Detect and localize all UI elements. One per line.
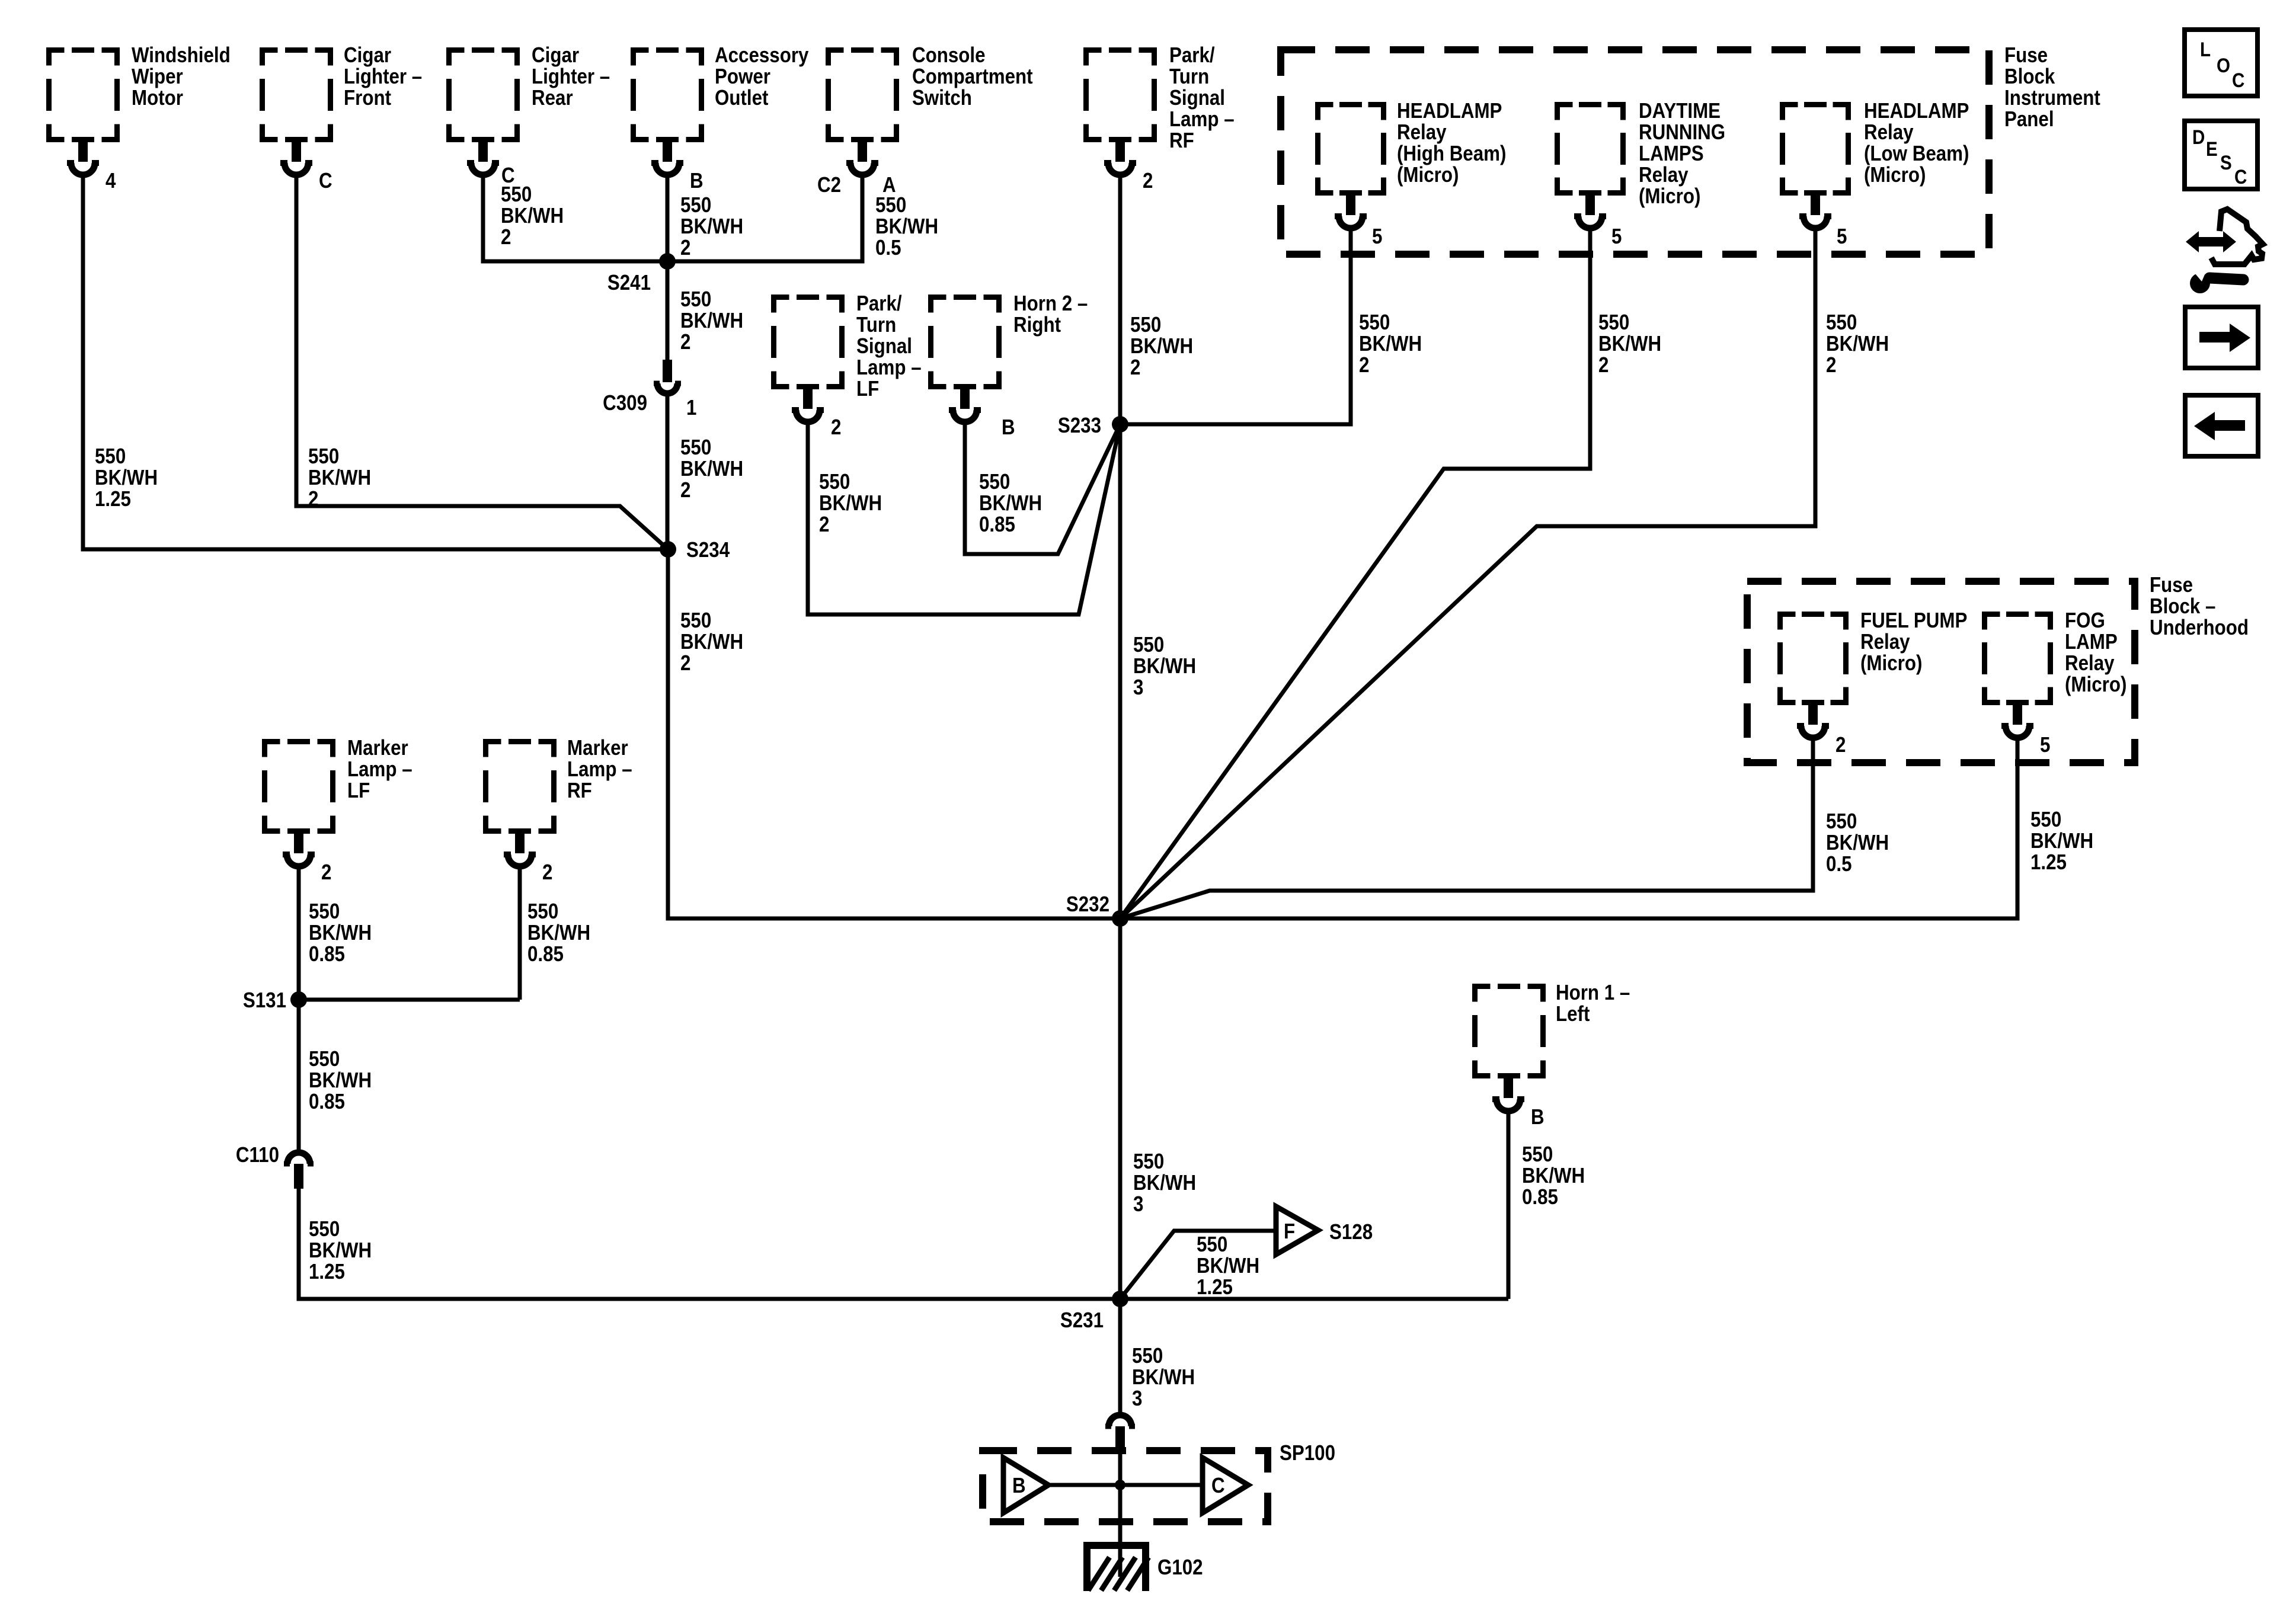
svg-text:2: 2 bbox=[1130, 356, 1140, 380]
svg-text:Block –: Block – bbox=[2150, 594, 2215, 619]
svg-text:2: 2 bbox=[1826, 353, 1836, 377]
svg-text:BK/WH: BK/WH bbox=[680, 630, 743, 654]
svg-text:BK/WH: BK/WH bbox=[680, 309, 743, 333]
svg-text:2: 2 bbox=[308, 487, 318, 511]
svg-text:S131: S131 bbox=[243, 988, 286, 1013]
svg-text:550: 550 bbox=[1133, 1150, 1164, 1174]
svg-text:0.85: 0.85 bbox=[979, 513, 1015, 537]
svg-text:C309: C309 bbox=[603, 391, 647, 415]
svg-text:550: 550 bbox=[501, 183, 532, 207]
svg-text:0.5: 0.5 bbox=[875, 236, 901, 260]
svg-text:HEADLAMP: HEADLAMP bbox=[1864, 99, 1969, 123]
svg-text:B: B bbox=[1012, 1474, 1026, 1498]
svg-text:2: 2 bbox=[680, 651, 690, 676]
svg-text:2: 2 bbox=[1835, 733, 1846, 757]
svg-text:BK/WH: BK/WH bbox=[2030, 829, 2093, 853]
svg-text:3: 3 bbox=[1132, 1387, 1142, 1411]
svg-text:0.85: 0.85 bbox=[309, 942, 345, 966]
svg-text:2: 2 bbox=[831, 415, 841, 440]
svg-text:550: 550 bbox=[1197, 1233, 1227, 1257]
svg-text:BK/WH: BK/WH bbox=[680, 457, 743, 481]
svg-text:S233: S233 bbox=[1058, 414, 1101, 438]
svg-text:C: C bbox=[319, 169, 332, 193]
svg-text:2: 2 bbox=[1143, 169, 1153, 193]
svg-text:Signal: Signal bbox=[1169, 86, 1225, 110]
svg-text:Marker: Marker bbox=[567, 736, 628, 760]
svg-text:2: 2 bbox=[1598, 353, 1609, 377]
svg-text:Wiper: Wiper bbox=[132, 65, 183, 89]
svg-text:Cigar: Cigar bbox=[532, 43, 579, 68]
svg-text:B: B bbox=[690, 169, 703, 193]
svg-text:Relay: Relay bbox=[2065, 651, 2115, 676]
svg-text:F: F bbox=[1284, 1219, 1295, 1244]
svg-text:Cigar: Cigar bbox=[344, 43, 391, 68]
svg-text:S232: S232 bbox=[1066, 892, 1109, 917]
svg-text:BK/WH: BK/WH bbox=[1133, 654, 1196, 678]
svg-text:3: 3 bbox=[1133, 676, 1143, 700]
svg-text:Turn: Turn bbox=[856, 313, 896, 337]
svg-text:Fuse: Fuse bbox=[2004, 43, 2048, 68]
svg-text:(Micro): (Micro) bbox=[1860, 651, 1922, 676]
svg-text:RF: RF bbox=[567, 779, 592, 803]
svg-text:Accessory: Accessory bbox=[715, 43, 809, 68]
svg-text:550: 550 bbox=[309, 1217, 340, 1241]
svg-text:(Low Beam): (Low Beam) bbox=[1864, 142, 1969, 166]
svg-text:BK/WH: BK/WH bbox=[1522, 1164, 1585, 1188]
svg-text:(Micro): (Micro) bbox=[1639, 184, 1700, 209]
svg-text:LAMPS: LAMPS bbox=[1639, 142, 1704, 166]
svg-text:550: 550 bbox=[1826, 809, 1857, 834]
svg-text:(Micro): (Micro) bbox=[1864, 163, 1926, 187]
svg-text:S234: S234 bbox=[686, 538, 730, 562]
svg-text:550: 550 bbox=[1598, 311, 1629, 335]
svg-text:BK/WH: BK/WH bbox=[680, 215, 743, 239]
svg-text:550: 550 bbox=[1130, 313, 1161, 337]
svg-text:2: 2 bbox=[819, 513, 829, 537]
svg-text:Lamp –: Lamp – bbox=[347, 757, 412, 782]
svg-text:Horn 2 –: Horn 2 – bbox=[1013, 292, 1088, 316]
svg-text:Windshield: Windshield bbox=[132, 43, 231, 68]
svg-text:(High Beam): (High Beam) bbox=[1397, 142, 1506, 166]
svg-text:C2: C2 bbox=[817, 173, 841, 197]
svg-text:BK/WH: BK/WH bbox=[527, 921, 590, 945]
svg-text:5: 5 bbox=[2040, 733, 2050, 757]
svg-text:550: 550 bbox=[819, 470, 850, 494]
svg-text:550: 550 bbox=[875, 193, 906, 217]
svg-text:BK/WH: BK/WH bbox=[1359, 332, 1422, 356]
svg-text:BK/WH: BK/WH bbox=[1130, 334, 1193, 359]
svg-text:Park/: Park/ bbox=[856, 292, 902, 316]
svg-text:2: 2 bbox=[1359, 353, 1369, 377]
svg-text:BK/WH: BK/WH bbox=[309, 1238, 372, 1263]
svg-text:Horn 1 –: Horn 1 – bbox=[1556, 981, 1630, 1005]
svg-text:1.25: 1.25 bbox=[309, 1260, 345, 1284]
svg-text:BK/WH: BK/WH bbox=[1132, 1365, 1195, 1390]
svg-text:LAMP: LAMP bbox=[2065, 630, 2118, 654]
svg-text:BK/WH: BK/WH bbox=[1598, 332, 1661, 356]
svg-text:Console: Console bbox=[912, 43, 986, 68]
svg-text:E: E bbox=[2206, 137, 2218, 160]
svg-text:Power: Power bbox=[715, 65, 770, 89]
svg-text:BK/WH: BK/WH bbox=[875, 215, 938, 239]
svg-text:5: 5 bbox=[1611, 225, 1622, 249]
svg-text:550: 550 bbox=[1132, 1344, 1163, 1368]
svg-text:2: 2 bbox=[680, 236, 690, 260]
svg-text:550: 550 bbox=[680, 287, 711, 312]
svg-text:2: 2 bbox=[501, 225, 511, 249]
svg-text:Fuse: Fuse bbox=[2150, 573, 2193, 597]
svg-text:FOG: FOG bbox=[2065, 609, 2105, 633]
svg-text:Panel: Panel bbox=[2004, 107, 2054, 132]
svg-text:B: B bbox=[1002, 415, 1015, 440]
svg-text:Park/: Park/ bbox=[1169, 43, 1215, 68]
svg-text:Right: Right bbox=[1013, 313, 1061, 337]
svg-text:550: 550 bbox=[1359, 311, 1390, 335]
svg-text:S: S bbox=[2220, 151, 2232, 174]
svg-text:RF: RF bbox=[1169, 129, 1194, 153]
svg-text:550: 550 bbox=[979, 470, 1010, 494]
svg-text:1.25: 1.25 bbox=[2030, 850, 2067, 875]
svg-text:550: 550 bbox=[680, 193, 711, 217]
svg-text:HEADLAMP: HEADLAMP bbox=[1397, 99, 1502, 123]
svg-text:550: 550 bbox=[1826, 311, 1857, 335]
svg-text:0.85: 0.85 bbox=[1522, 1185, 1558, 1209]
svg-text:2: 2 bbox=[680, 330, 690, 354]
svg-text:Underhood: Underhood bbox=[2150, 616, 2249, 640]
svg-text:2: 2 bbox=[680, 478, 690, 502]
svg-text:Relay: Relay bbox=[1860, 630, 1910, 654]
svg-text:5: 5 bbox=[1372, 225, 1382, 249]
svg-text:LF: LF bbox=[347, 779, 370, 803]
svg-text:BK/WH: BK/WH bbox=[95, 466, 158, 490]
svg-text:Front: Front bbox=[344, 86, 391, 110]
svg-text:B: B bbox=[1531, 1105, 1544, 1129]
svg-text:L: L bbox=[2200, 38, 2211, 60]
svg-text:Switch: Switch bbox=[912, 86, 972, 110]
svg-text:(Micro): (Micro) bbox=[2065, 673, 2126, 697]
svg-text:Lighter –: Lighter – bbox=[532, 65, 610, 89]
svg-text:BK/WH: BK/WH bbox=[1826, 831, 1889, 855]
svg-text:Compartment: Compartment bbox=[912, 65, 1033, 89]
svg-text:Lamp –: Lamp – bbox=[567, 757, 632, 782]
svg-text:Instrument: Instrument bbox=[2004, 86, 2100, 110]
svg-text:Relay: Relay bbox=[1639, 163, 1689, 187]
svg-text:550: 550 bbox=[308, 444, 339, 469]
svg-text:C: C bbox=[2234, 165, 2247, 188]
svg-text:550: 550 bbox=[309, 1047, 340, 1071]
svg-text:LF: LF bbox=[856, 377, 879, 401]
svg-text:Relay: Relay bbox=[1864, 120, 1914, 145]
svg-text:0.5: 0.5 bbox=[1826, 852, 1852, 876]
svg-text:Lamp –: Lamp – bbox=[1169, 107, 1235, 132]
svg-text:2: 2 bbox=[321, 860, 331, 885]
svg-text:FUEL PUMP: FUEL PUMP bbox=[1860, 609, 1967, 633]
svg-text:C110: C110 bbox=[236, 1143, 279, 1167]
svg-text:SP100: SP100 bbox=[1280, 1441, 1335, 1465]
svg-text:Rear: Rear bbox=[532, 86, 573, 110]
svg-text:D: D bbox=[2192, 126, 2205, 148]
svg-text:BK/WH: BK/WH bbox=[979, 491, 1042, 516]
svg-text:BK/WH: BK/WH bbox=[1197, 1254, 1259, 1278]
svg-text:550: 550 bbox=[2030, 808, 2061, 832]
svg-text:Relay: Relay bbox=[1397, 120, 1447, 145]
svg-text:3: 3 bbox=[1133, 1192, 1143, 1217]
svg-text:0.85: 0.85 bbox=[309, 1090, 345, 1114]
svg-text:550: 550 bbox=[1522, 1142, 1553, 1167]
svg-text:S241: S241 bbox=[607, 271, 651, 295]
svg-text:550: 550 bbox=[309, 900, 340, 924]
svg-text:S231: S231 bbox=[1060, 1308, 1104, 1333]
svg-text:0.85: 0.85 bbox=[527, 942, 564, 966]
svg-text:Block: Block bbox=[2004, 65, 2055, 89]
svg-text:Turn: Turn bbox=[1169, 65, 1209, 89]
svg-text:BK/WH: BK/WH bbox=[309, 921, 372, 945]
svg-text:Lamp –: Lamp – bbox=[856, 356, 922, 380]
svg-text:C: C bbox=[1211, 1474, 1225, 1498]
svg-text:BK/WH: BK/WH bbox=[1826, 332, 1889, 356]
svg-text:BK/WH: BK/WH bbox=[501, 204, 564, 228]
svg-text:Motor: Motor bbox=[132, 86, 183, 110]
svg-text:550: 550 bbox=[1133, 633, 1164, 657]
svg-text:4: 4 bbox=[105, 169, 116, 193]
svg-text:Outlet: Outlet bbox=[715, 86, 768, 110]
svg-text:2: 2 bbox=[542, 860, 552, 885]
svg-text:1.25: 1.25 bbox=[1197, 1275, 1233, 1299]
svg-text:RUNNING: RUNNING bbox=[1639, 120, 1725, 145]
svg-text:Signal: Signal bbox=[856, 334, 912, 359]
svg-text:550: 550 bbox=[527, 900, 558, 924]
svg-text:5: 5 bbox=[1837, 225, 1847, 249]
svg-text:DAYTIME: DAYTIME bbox=[1639, 99, 1721, 123]
svg-text:Left: Left bbox=[1556, 1002, 1590, 1026]
svg-text:BK/WH: BK/WH bbox=[308, 466, 371, 490]
svg-text:Lighter –: Lighter – bbox=[344, 65, 422, 89]
svg-text:1.25: 1.25 bbox=[95, 487, 131, 511]
svg-text:S128: S128 bbox=[1329, 1220, 1373, 1244]
svg-text:G102: G102 bbox=[1157, 1555, 1203, 1580]
svg-text:BK/WH: BK/WH bbox=[309, 1068, 372, 1093]
svg-text:O: O bbox=[2217, 54, 2230, 76]
svg-text:BK/WH: BK/WH bbox=[819, 491, 882, 516]
svg-text:550: 550 bbox=[680, 436, 711, 460]
svg-text:Marker: Marker bbox=[347, 736, 408, 760]
svg-text:550: 550 bbox=[680, 609, 711, 633]
svg-text:(Micro): (Micro) bbox=[1397, 163, 1459, 187]
svg-text:1: 1 bbox=[686, 396, 696, 420]
svg-text:550: 550 bbox=[95, 444, 126, 469]
svg-text:C: C bbox=[2232, 69, 2244, 91]
svg-text:BK/WH: BK/WH bbox=[1133, 1171, 1196, 1195]
